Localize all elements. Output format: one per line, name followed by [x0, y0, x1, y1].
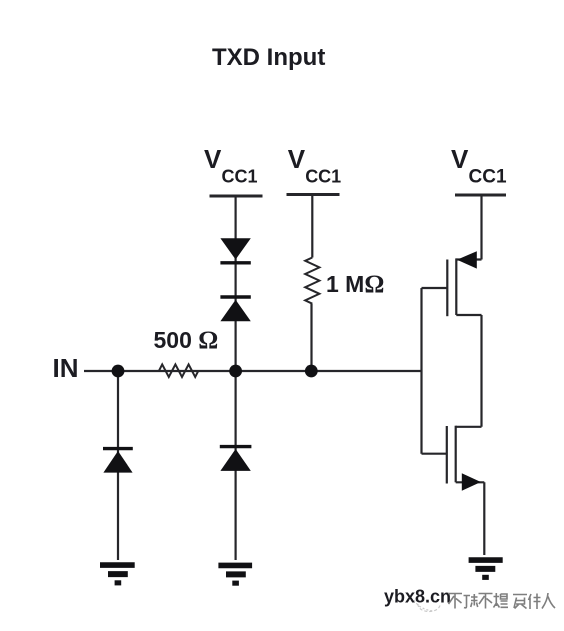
diode D1 (top, anode to VCC1, pointing down)	[220, 238, 250, 262]
svg-text:IN: IN	[53, 353, 79, 383]
char 5	[513, 595, 527, 609]
PMOS drain lead	[456, 314, 481, 316]
resistor 1 Mohm (vertical zigzag from VCC1 rail 2)	[305, 196, 319, 371]
transistor Q1 PMOS	[422, 196, 482, 316]
NMOS source lead	[456, 481, 485, 483]
transistor Q2 NMOS	[422, 426, 485, 555]
watermark logo swirl	[414, 600, 440, 612]
wire: drain bus between Q1 and Q2	[480, 315, 482, 427]
resistor 500 ohm (horizontal zigzag in main wire)	[159, 364, 198, 377]
svg-text:V: V	[288, 144, 306, 174]
char 6	[529, 594, 541, 610]
svg-text:500 Ω: 500 Ω	[154, 327, 219, 354]
power rail bar 3 (VCC1 right)	[455, 194, 506, 197]
watermark chinese text (simplified stroke approximation)	[448, 593, 555, 609]
NMOS channel line	[455, 426, 457, 483]
label VCC1 (right, above PMOS)	[451, 144, 507, 188]
NMOS gate plate line	[446, 426, 448, 484]
PMOS source lead	[456, 258, 481, 260]
wire: NMOS source down to right ground	[483, 482, 485, 555]
NMOS gate lead	[422, 453, 447, 455]
svg-text:1 MΩ: 1 MΩ	[326, 271, 384, 298]
PMOS source arrow (pointing left into channel)	[457, 251, 477, 268]
ground symbol right	[469, 560, 503, 580]
wire: middle branch vertical (VCC1 rail through diodes to ground)	[235, 196, 237, 560]
svg-text:CC1: CC1	[469, 167, 507, 188]
NMOS drain lead	[456, 426, 482, 428]
svg-text:CC1: CC1	[305, 167, 341, 187]
PMOS channel line	[455, 258, 457, 315]
junction node dot C (below 1 Mohm)	[305, 365, 318, 378]
ground symbol left	[100, 565, 135, 585]
diode D4 (middle branch to ground, pointing up)	[220, 447, 252, 471]
diode D3 (left branch to ground, pointing up)	[103, 449, 133, 473]
svg-text:TXD Input: TXD Input	[212, 44, 325, 71]
wire: gate bus vertical	[420, 288, 422, 454]
svg-text:ybx8.cn: ybx8.cn	[384, 587, 451, 607]
char 4	[494, 593, 509, 608]
NMOS source arrow (pointing right, out of channel)	[462, 473, 481, 490]
power rail bar 1 (VCC1 left)	[210, 195, 263, 198]
wire: main horizontal node wire from IN to gate bus	[84, 370, 422, 372]
junction node dot B (after 500 ohm, diode stack branch)	[229, 365, 242, 378]
label VCC1 (left, above diode stack)	[204, 144, 258, 187]
char 2	[464, 594, 478, 608]
power rail bar 2 (VCC1 middle)	[287, 193, 340, 196]
char 7	[542, 593, 555, 609]
junction node dot A (IN / left diode branch)	[112, 365, 125, 378]
svg-text:V: V	[204, 144, 222, 174]
char 3	[479, 594, 493, 609]
PMOS gate lead	[422, 287, 448, 289]
PMOS gate plate line	[446, 260, 448, 317]
diode D2 (below D1, pointing up, cathode-to-cathode with D1)	[220, 297, 250, 321]
label VCC1 (middle, above 1 Mohm resistor)	[288, 144, 342, 187]
svg-text:V: V	[451, 144, 469, 174]
svg-text:CC1: CC1	[222, 167, 258, 187]
ground symbol middle	[218, 565, 252, 585]
char 1	[448, 594, 462, 609]
wire: VCC1 rail 3 down to PMOS source	[480, 196, 482, 260]
wire: left branch vertical (node to left ground)	[117, 371, 119, 560]
